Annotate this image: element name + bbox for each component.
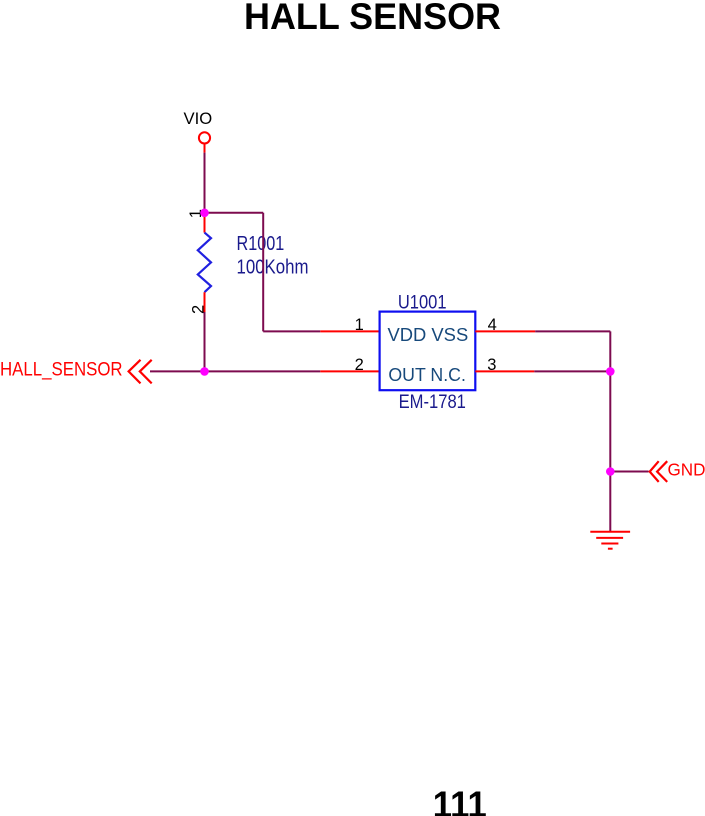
resistor R1001 [198,213,211,312]
svg-text:VDD VSS: VDD VSS [388,324,469,345]
ground symbol [590,532,630,549]
wire right vertical [609,331,611,531]
wire pin 4 to right corner [535,330,610,332]
svg-text:R1001: R1001 [237,233,285,255]
svg-text:4: 4 [488,316,497,334]
svg-text:GND: GND [668,460,705,480]
junction D on vertical at GND [606,467,615,476]
svg-text:111: 111 [433,783,487,816]
svg-text:3: 3 [487,356,496,374]
wire corner down [262,213,264,332]
svg-text:VIO: VIO [184,109,213,128]
IC U1001 body [380,312,476,391]
wire VIO to junction A [204,153,206,213]
wire HALL_SENSOR to junction B [150,370,205,372]
wire junction B to U1001 pin 2 [205,370,321,372]
svg-text:1: 1 [355,316,364,334]
svg-text:EM-1781: EM-1781 [399,391,466,413]
U1001 pin 3 stub [475,370,534,372]
svg-text:HALL_SENSOR: HALL_SENSOR [0,360,123,381]
wire resistor to junction B [204,312,206,371]
U1001 pin 2 stub [320,370,379,372]
port HALL_SENSOR chevrons [129,360,152,384]
U1001 pin 4 stub [475,330,535,332]
svg-text:HALL SENSOR: HALL SENSOR [244,0,501,37]
wire pin 3 to junction C [534,370,610,372]
junction C [606,367,615,376]
junction B [200,367,209,376]
svg-text:U1001: U1001 [398,292,447,314]
junction A [200,209,209,218]
port GND chevrons [650,461,668,482]
wire to U1001 pin 1 [263,330,320,332]
U1001 pin 1 stub [320,330,379,332]
wire junction A to corner [205,212,264,214]
svg-text:100Kohm: 100Kohm [237,257,309,279]
svg-text:OUT N.C.: OUT N.C. [388,364,466,385]
svg-text:2: 2 [355,356,364,374]
wire junction C to GND port [610,471,648,473]
power symbol VIO circle [199,132,210,152]
